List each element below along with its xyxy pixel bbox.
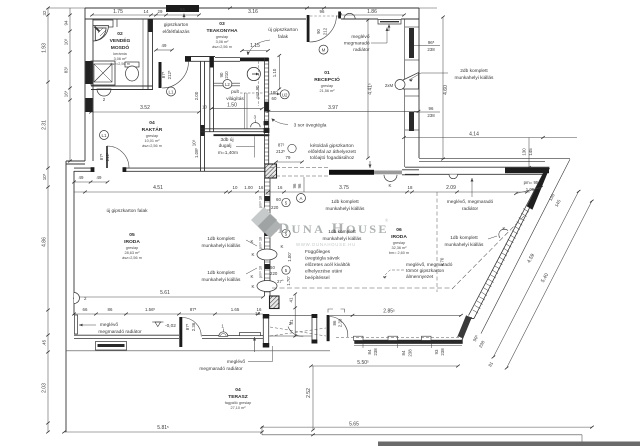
diag dim 5.40 bbox=[507, 201, 592, 368]
wall pier right of office 05 bbox=[263, 314, 268, 348]
bottom dim line right 5.65 bbox=[262, 426, 592, 428]
svg-text:munkahelyi kiállás: munkahelyi kiállás bbox=[202, 243, 242, 249]
svg-text:3db új: 3db új bbox=[220, 137, 233, 143]
chain y314 bbox=[74, 313, 263, 315]
svg-text:02: 02 bbox=[117, 31, 123, 37]
svg-text:84: 84 bbox=[401, 350, 406, 355]
svg-text:munkahelyi kiállás: munkahelyi kiállás bbox=[323, 236, 363, 242]
bottom dim line left 5.81 bbox=[64, 431, 262, 433]
svg-text:A: A bbox=[300, 196, 303, 201]
window label fraction lines bbox=[424, 45, 440, 47]
left outer wall bbox=[84, 8, 86, 161]
kitchen counter top wall bbox=[215, 58, 240, 62]
kitchen sink bbox=[247, 67, 260, 80]
svg-text:49: 49 bbox=[162, 43, 167, 48]
svg-text:megmaradó radiátor: megmaradó radiátor bbox=[98, 329, 142, 335]
door M jambs top wall bbox=[307, 15, 310, 42]
vert dim 130/145 bbox=[528, 138, 530, 168]
mid long chain y192 bbox=[74, 191, 530, 193]
SEC2 outer walls, top band bbox=[66, 8, 570, 432]
svg-text:munkahelyi kiállás: munkahelyi kiállás bbox=[326, 206, 366, 212]
dim 3.52 bbox=[91, 111, 199, 113]
svg-text:radiátor: radiátor bbox=[353, 47, 370, 53]
svg-text:96: 96 bbox=[320, 9, 325, 14]
U2 circle bbox=[280, 90, 289, 99]
column 1 hatched bbox=[265, 164, 277, 178]
L2 circle bbox=[223, 80, 232, 89]
hall top wall bbox=[185, 57, 215, 62]
svg-text:RAKTÁR: RAKTÁR bbox=[142, 126, 163, 133]
svg-text:greslap: greslap bbox=[321, 84, 333, 88]
svg-text:1.65: 1.65 bbox=[231, 307, 240, 312]
door arc terrace middle bbox=[288, 327, 303, 337]
svg-text:3,06 m²: 3,06 m² bbox=[114, 57, 128, 61]
svg-text:meglévő: meglévő bbox=[227, 359, 245, 365]
chain 5.61 bbox=[75, 296, 263, 298]
svg-text:86: 86 bbox=[108, 307, 113, 312]
svg-text:220: 220 bbox=[271, 205, 279, 210]
cabinet top-left bbox=[93, 20, 113, 27]
vert dim 2.52 bbox=[312, 366, 314, 430]
half circle marker on wall bbox=[384, 175, 397, 182]
svg-text:04: 04 bbox=[149, 120, 155, 126]
svg-text:49: 49 bbox=[79, 175, 84, 180]
wall projection line right bbox=[419, 158, 570, 160]
angled wall black top segment bbox=[527, 168, 550, 210]
chain 2.85 bbox=[330, 314, 461, 316]
svg-text:beépítéssel: beépítéssel bbox=[305, 275, 330, 281]
svg-text:elhelyezése utáni: elhelyezése utáni bbox=[305, 269, 342, 275]
mullion blocks bbox=[354, 336, 364, 340]
kitchen bottom wall bbox=[201, 129, 267, 132]
svg-text:3.52: 3.52 bbox=[140, 105, 150, 111]
kitchen left wall bbox=[210, 57, 214, 132]
svg-text:3.97: 3.97 bbox=[328, 105, 338, 111]
svg-text:32: 32 bbox=[42, 10, 47, 15]
svg-text:L1: L1 bbox=[169, 90, 174, 95]
svg-text:96: 96 bbox=[429, 106, 434, 111]
svg-text:pm= 10: pm= 10 bbox=[259, 237, 263, 249]
svg-text:greslap: greslap bbox=[146, 134, 158, 138]
counter edge lines bbox=[214, 82, 241, 84]
svg-text:1db komplett: 1db komplett bbox=[328, 229, 356, 235]
svg-text:2.03: 2.03 bbox=[42, 383, 48, 393]
leader from radiator label bottom bbox=[248, 346, 273, 362]
svg-text:18: 18 bbox=[408, 185, 413, 190]
svg-text:2.09: 2.09 bbox=[446, 185, 456, 191]
svg-text:3.16: 3.16 bbox=[248, 9, 258, 15]
svg-text:49: 49 bbox=[97, 175, 102, 180]
svg-text:K: K bbox=[389, 183, 392, 188]
window bars in reception right wall bbox=[409, 28, 414, 58]
reception right wall outer bbox=[418, 8, 420, 158]
svg-text:1.70’: 1.70’ bbox=[286, 276, 291, 286]
svg-text:dugalj: dugalj bbox=[219, 143, 232, 149]
door 3 small swing bbox=[251, 123, 261, 128]
svg-text:1.86: 1.86 bbox=[367, 9, 377, 15]
svg-text:16: 16 bbox=[259, 185, 264, 190]
svg-text:66: 66 bbox=[83, 307, 88, 312]
leader 1db komplett right bbox=[488, 236, 497, 239]
svg-text:5.61: 5.61 bbox=[160, 290, 170, 296]
counter dashed lines bbox=[240, 92, 264, 94]
new drywall black bar 96 on top wall bbox=[166, 5, 199, 12]
vert dim 4.41 reception bbox=[367, 20, 369, 158]
svg-text:96: 96 bbox=[180, 7, 185, 12]
svg-text:előtétfalazás: előtétfalazás bbox=[163, 29, 191, 35]
angled wall outer/inner lines bbox=[469, 168, 550, 319]
leader: ketoldali gipszkarton bbox=[369, 161, 371, 168]
svg-text:1.10: 1.10 bbox=[272, 68, 277, 77]
toilet/washroom right wall bbox=[147, 19, 149, 90]
svg-text:meglévő, megmaradó: meglévő, megmaradó bbox=[447, 199, 494, 205]
fixture 2 on left wall bbox=[74, 293, 80, 304]
svg-text:130: 130 bbox=[522, 148, 527, 156]
workstation ellipse markers on glass wall bbox=[257, 249, 277, 260]
diag dim 4.59 bbox=[493, 191, 578, 357]
svg-text:Függőleges: Függőleges bbox=[305, 249, 331, 255]
svg-text:meglévő: meglévő bbox=[100, 322, 118, 328]
svg-text:16: 16 bbox=[255, 311, 260, 316]
svg-text:IRODA: IRODA bbox=[391, 234, 407, 240]
svg-text:üvegtégla sávok: üvegtégla sávok bbox=[305, 256, 340, 262]
svg-text:IRODA: IRODA bbox=[124, 239, 140, 245]
column 2 hatched bbox=[270, 296, 280, 309]
south window band left bbox=[74, 335, 263, 338]
radiator under top-right window bbox=[378, 20, 401, 25]
svg-text:96: 96 bbox=[297, 183, 302, 188]
svg-text:2.38: 2.38 bbox=[338, 318, 343, 327]
shower tray bbox=[91, 61, 115, 85]
leader radiator label left bbox=[79, 324, 96, 326]
svg-text:világítás: világítás bbox=[226, 96, 244, 102]
svg-text:tömör gipszkarton: tömör gipszkarton bbox=[406, 268, 444, 274]
dim 49 49 bbox=[74, 181, 108, 183]
svg-text:1.00’: 1.00’ bbox=[287, 252, 292, 262]
svg-text:28,63 m²: 28,63 m² bbox=[125, 251, 141, 255]
svg-text:90: 90 bbox=[316, 29, 321, 34]
svg-text:5.65: 5.65 bbox=[349, 422, 359, 428]
svg-text:megmaradó radiátor: megmaradó radiátor bbox=[199, 366, 243, 372]
top inner face bbox=[85, 18, 306, 20]
svg-text:1.50: 1.50 bbox=[227, 103, 237, 109]
corner wash basin bbox=[93, 26, 109, 42]
A circle bbox=[297, 194, 306, 203]
svg-text:32,36 m²: 32,36 m² bbox=[392, 246, 408, 250]
room 05 office label bbox=[122, 232, 142, 260]
terrace floor line bbox=[66, 350, 330, 352]
watermark bbox=[251, 207, 389, 247]
small dim pm95 line bbox=[516, 188, 541, 194]
svg-text:pult: pult bbox=[231, 89, 239, 95]
fixture 1 half circle bbox=[219, 332, 228, 337]
svg-text:pm= 10: pm= 10 bbox=[259, 196, 263, 208]
svg-text:27°: 27° bbox=[277, 279, 284, 284]
leader: uj gipszkarton falak top bbox=[248, 40, 270, 55]
dim 79 bbox=[276, 161, 302, 163]
svg-text:K: K bbox=[281, 244, 284, 249]
terrace dashed slide door bbox=[270, 327, 326, 336]
svg-text:04: 04 bbox=[235, 387, 241, 393]
svg-text:2.31: 2.31 bbox=[42, 120, 48, 130]
toilet bbox=[125, 62, 139, 81]
svg-text:L2: L2 bbox=[225, 82, 230, 87]
svg-text:ász=2,56 m: ász=2,56 m bbox=[142, 144, 162, 148]
svg-text:1db komplett: 1db komplett bbox=[450, 235, 478, 241]
leader to almennyezet bbox=[383, 270, 404, 277]
room 03 kitchen label bbox=[207, 21, 238, 49]
angled glazing rungs bbox=[473, 209, 529, 314]
sliding door panel black bbox=[329, 170, 374, 175]
dim 49 bbox=[156, 49, 172, 51]
dim 1.15 kitchen bbox=[242, 50, 268, 52]
leader: 2db komplett bbox=[409, 73, 448, 80]
leader meglevo radiator mid right bbox=[471, 178, 473, 197]
terrace door leaf bbox=[179, 317, 182, 347]
svg-text:-0,02: -0,02 bbox=[165, 323, 176, 329]
svg-text:előtétfal az áthelyezett: előtétfal az áthelyezett bbox=[308, 149, 356, 155]
svg-text:meglévő, megmaradó: meglévő, megmaradó bbox=[406, 262, 453, 268]
svg-text:greslap: greslap bbox=[216, 35, 228, 39]
top outer face bbox=[85, 7, 419, 9]
storage right wall bbox=[201, 61, 205, 171]
svg-text:TEAKONYHA: TEAKONYHA bbox=[207, 28, 238, 34]
radiator on terrace below window bbox=[96, 342, 127, 351]
svg-text:1db komplett: 1db komplett bbox=[207, 236, 235, 242]
washroom bottom wall bbox=[91, 19, 153, 90]
svg-text:radiátor: radiátor bbox=[462, 206, 479, 212]
room 04 terrace label bbox=[225, 387, 252, 410]
reception right wall inner dashed bbox=[404, 19, 406, 167]
svg-text:94: 94 bbox=[64, 20, 69, 25]
leader: meglevo radiator top right bbox=[371, 28, 387, 44]
svg-text:ász=2,56 m: ász=2,56 m bbox=[212, 45, 232, 49]
glass wall office segment bbox=[265, 178, 271, 296]
glass wall kitchen segment with rungs bbox=[265, 58, 269, 164]
svg-text:®: ® bbox=[385, 218, 389, 223]
office top wall bbox=[74, 168, 265, 171]
svg-text:K: K bbox=[252, 284, 255, 289]
sliding door pocket gray bbox=[374, 171, 402, 175]
door 86/238 leaf near x330 bbox=[327, 315, 330, 341]
level marker -0,02 bbox=[155, 322, 161, 327]
sliding door wall: dashed old wall part bbox=[270, 167, 329, 169]
svg-text:1.75: 1.75 bbox=[113, 9, 123, 15]
svg-text:TERASZ: TERASZ bbox=[228, 394, 248, 400]
svg-text:4.14: 4.14 bbox=[469, 132, 479, 138]
terrace right pier bbox=[312, 314, 317, 344]
svg-text:kerámia: kerámia bbox=[113, 52, 127, 56]
svg-text:álmennyezet: álmennyezet bbox=[406, 274, 434, 280]
svg-text:ász=2,56 m: ász=2,56 m bbox=[110, 62, 130, 66]
door M swing arc bbox=[344, 13, 355, 19]
svg-text:60: 60 bbox=[272, 96, 277, 101]
radiator inside room 05 right bbox=[240, 333, 261, 336]
dim 1.50 bbox=[211, 108, 261, 110]
svg-text:238: 238 bbox=[427, 47, 435, 52]
svg-text:238: 238 bbox=[440, 348, 445, 356]
svg-text:05: 05 bbox=[129, 232, 135, 238]
angled wall lower door segment bbox=[458, 316, 475, 341]
south glazing band bbox=[355, 340, 463, 344]
svg-text:új gipszkarton: új gipszkarton bbox=[268, 27, 298, 33]
svg-text:munkahelyi kiállás: munkahelyi kiállás bbox=[202, 277, 242, 283]
svg-text:3,06 m²: 3,06 m² bbox=[216, 40, 230, 44]
top dim line bbox=[48, 7, 437, 9]
svg-text:60: 60 bbox=[270, 265, 275, 270]
svg-text:2db komplett: 2db komplett bbox=[460, 68, 488, 74]
washroom door swing bbox=[162, 62, 189, 89]
svg-text:M: M bbox=[322, 48, 326, 53]
svg-text:06: 06 bbox=[396, 227, 402, 233]
svg-text:238: 238 bbox=[408, 349, 413, 357]
svg-text:4.60: 4.60 bbox=[443, 85, 449, 95]
svg-text:bm= 2,60 m: bm= 2,60 m bbox=[389, 251, 409, 255]
svg-text:60: 60 bbox=[276, 197, 281, 202]
svg-text:psz 90: psz 90 bbox=[255, 85, 260, 98]
left dim chain 1 bbox=[47, 8, 49, 432]
svg-text:212: 212 bbox=[323, 27, 328, 35]
K marker on angled wall bbox=[499, 229, 508, 238]
svg-text:145: 145 bbox=[528, 148, 533, 156]
svg-text:greslap: greslap bbox=[126, 246, 138, 250]
svg-text:2.00: 2.00 bbox=[194, 91, 199, 100]
svg-text:munkahelyi kiállás: munkahelyi kiállás bbox=[455, 75, 495, 81]
svg-text:K: K bbox=[252, 252, 255, 257]
svg-text:86: 86 bbox=[332, 320, 337, 325]
dim 4.14 bbox=[404, 137, 577, 139]
svg-text:greslap: greslap bbox=[393, 241, 405, 245]
svg-text:előzetes acél kiváltók: előzetes acél kiváltók bbox=[305, 262, 351, 268]
svg-text:29: 29 bbox=[158, 9, 163, 14]
svg-text:WWW.DUNAHOUSE.HU: WWW.DUNAHOUSE.HU bbox=[296, 242, 356, 247]
svg-text:01: 01 bbox=[324, 70, 330, 76]
svg-text:U2: U2 bbox=[282, 92, 288, 97]
svg-text:pm= 95: pm= 95 bbox=[524, 180, 539, 185]
svg-text:2.52: 2.52 bbox=[306, 388, 312, 398]
svg-text:1.00: 1.00 bbox=[244, 185, 253, 190]
svg-text:falak: falak bbox=[278, 34, 289, 40]
washroom internal partition bbox=[116, 19, 118, 27]
svg-text:.45: .45 bbox=[42, 339, 47, 346]
L1 door circle hall bbox=[167, 87, 176, 96]
svg-text:kétoldali gipszkarton: kétoldali gipszkarton bbox=[310, 143, 354, 149]
office door jambs bbox=[91, 167, 95, 172]
ceiling dashed outline bbox=[272, 287, 452, 289]
bottom gray bar bbox=[378, 442, 640, 446]
leader: gipszkarton elotetfalazas bbox=[183, 14, 185, 20]
svg-text:fagyálló greslap: fagyálló greslap bbox=[225, 401, 252, 405]
door M circle bbox=[319, 45, 328, 54]
svg-text:220: 220 bbox=[270, 271, 278, 276]
radiator band top bbox=[405, 167, 550, 174]
svg-text:tolóajtó fogadásához: tolóajtó fogadásához bbox=[310, 155, 355, 161]
svg-text:m=1,40m: m=1,40m bbox=[218, 150, 238, 156]
svg-text:1db komplett: 1db komplett bbox=[331, 199, 359, 205]
svg-text:1db komplett: 1db komplett bbox=[207, 270, 235, 276]
svg-text:K: K bbox=[251, 274, 254, 279]
svg-text:93: 93 bbox=[434, 349, 439, 354]
svg-text:10,01 m²: 10,01 m² bbox=[145, 139, 161, 143]
L1 circle office door bbox=[100, 131, 109, 140]
svg-text:14: 14 bbox=[144, 9, 149, 14]
washroom door leaf black bbox=[159, 62, 162, 88]
svg-text:K: K bbox=[503, 226, 506, 231]
SEC3 guest washroom fixtures bbox=[86, 98, 93, 112]
svg-text:ász=2,56 m: ász=2,56 m bbox=[122, 256, 142, 260]
left wall radiator strip bbox=[75, 315, 78, 334]
svg-text:4.51: 4.51 bbox=[153, 185, 163, 191]
chain 5.50 bbox=[311, 365, 458, 367]
svg-text:84: 84 bbox=[367, 349, 372, 354]
svg-text:meglévő: meglévő bbox=[351, 34, 369, 40]
svg-text:238: 238 bbox=[373, 348, 378, 356]
svg-text:03: 03 bbox=[219, 21, 225, 27]
vert dim 4.60 bbox=[442, 17, 444, 159]
svg-text:új gipszkarton falak: új gipszkarton falak bbox=[106, 208, 148, 214]
2xM workstation trapezoid in reception bbox=[403, 73, 419, 90]
svg-text:21,56 m²: 21,56 m² bbox=[320, 89, 336, 93]
svg-text:27,10 m²: 27,10 m² bbox=[231, 406, 247, 410]
svg-text:gipszkarton: gipszkarton bbox=[164, 22, 189, 28]
svg-text:3.75: 3.75 bbox=[339, 185, 349, 191]
svg-text:megmaradó: megmaradó bbox=[344, 41, 370, 47]
svg-text:2xM: 2xM bbox=[385, 83, 394, 88]
room 06 office label bbox=[389, 227, 409, 255]
svg-text:16: 16 bbox=[278, 185, 283, 190]
svg-text:79: 79 bbox=[286, 155, 291, 160]
circled 5 markers bbox=[282, 198, 290, 206]
svg-text:3 sor üvegtégla: 3 sor üvegtégla bbox=[294, 123, 327, 129]
svg-text:10: 10 bbox=[233, 185, 238, 190]
room 02 washroom label bbox=[110, 31, 131, 66]
svg-text:41: 41 bbox=[289, 297, 294, 302]
svg-text:munkahelyi kiállás: munkahelyi kiállás bbox=[445, 242, 485, 248]
left wall jog to office wall bbox=[66, 160, 85, 162]
leader: 3 sor uvegtegla bbox=[272, 119, 289, 125]
room 01 reception label bbox=[314, 70, 340, 93]
svg-text:L1: L1 bbox=[102, 133, 107, 138]
svg-text:pm= 10: pm= 10 bbox=[259, 266, 263, 278]
svg-text:1.93: 1.93 bbox=[42, 43, 48, 53]
left dim chain 2 bbox=[69, 8, 71, 161]
room 04 storage label bbox=[142, 120, 163, 148]
dim 3.97 bbox=[269, 110, 419, 112]
svg-text:4.86: 4.86 bbox=[42, 237, 48, 247]
svg-text:210: 210 bbox=[224, 71, 229, 79]
washbasin symbol 2 below washroom wall bbox=[97, 89, 111, 96]
svg-text:238: 238 bbox=[427, 113, 435, 118]
svg-text:2.36: 2.36 bbox=[191, 322, 196, 331]
office door leaf + swing bbox=[106, 146, 108, 168]
